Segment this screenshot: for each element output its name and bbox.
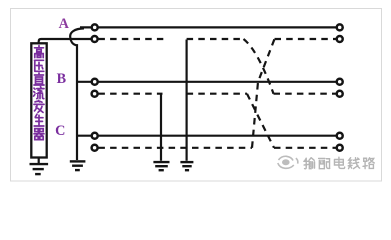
generator output wire to phase A lower terminal [39, 39, 91, 43]
node: phase A left solid terminal [92, 24, 98, 30]
wire: dashed conductor at B level right segment [274, 93, 337, 95]
svg-text:C: C [55, 123, 65, 139]
svg-text:A: A [59, 16, 70, 32]
char 线 [348, 158, 359, 169]
wire: phase A dashed conductor left segment [98, 38, 163, 40]
generator value label text 高压直流发生器 (vertical) [34, 46, 44, 140]
wire: transposition diagonal C to A position [252, 39, 275, 148]
char 配 [319, 158, 330, 168]
wire: phase C dashed conductor left segment [98, 147, 252, 149]
char 流 [34, 87, 44, 99]
wire: phase A dashed conductor middle segment from grounding tap [187, 38, 244, 40]
node: phase B right solid terminal [337, 79, 343, 85]
char 路 [363, 158, 374, 169]
wire: transposition diagonal A to B position [244, 39, 274, 94]
node: phase B left dashed terminal [92, 91, 98, 97]
V1 ground symbol [153, 162, 169, 170]
bus ground symbol [70, 161, 86, 170]
node: phase A right solid terminal [337, 24, 343, 30]
HV DC generator box U1 (高压直流发生器) [31, 43, 46, 157]
wire: transposition diagonal B to C position [247, 94, 274, 148]
wire: phase B dashed conductor middle segment [187, 93, 247, 95]
node: phase B left solid terminal [92, 79, 98, 85]
wire: phase A solid conductor [80, 26, 340, 28]
node: phase C left solid terminal [92, 133, 98, 139]
node: phase C right dashed terminal [337, 145, 343, 151]
svg-text:B: B [57, 71, 67, 87]
char 器 [34, 129, 44, 140]
generator ground symbol [30, 158, 49, 175]
char 输 [304, 158, 315, 169]
char 压 [35, 60, 44, 71]
node: phase C right solid terminal [337, 133, 343, 139]
char 电 [334, 157, 344, 168]
wire: dashed conductor at A level right segment [275, 38, 337, 40]
watermark logo [278, 156, 298, 168]
watermark text 输配电线路 [304, 157, 374, 169]
char 发 [34, 100, 44, 112]
node: phase A right dashed terminal [337, 36, 343, 42]
grounding wire tap V1 from B dashed conductor [160, 94, 162, 161]
ground bus wire with arc joining phase A solid line [70, 28, 84, 160]
wire: phase B dashed conductor left segment [98, 93, 162, 95]
char 生 [34, 114, 44, 126]
wire: phase C solid conductor (stub from bus through terminals) [77, 135, 340, 137]
node: phase A left dashed terminal [92, 36, 98, 42]
node: phase B right dashed terminal [337, 91, 343, 97]
char 高 [35, 46, 44, 58]
grounding wire tap V2 from A dashed conductor [186, 40, 188, 161]
wire: phase B solid conductor (stub from bus through terminals) [77, 81, 340, 83]
V2 ground symbol [180, 162, 193, 170]
node: phase C left dashed terminal [92, 145, 98, 151]
char 直 [34, 73, 44, 85]
wire: dashed conductor at C level right segment [274, 147, 336, 149]
